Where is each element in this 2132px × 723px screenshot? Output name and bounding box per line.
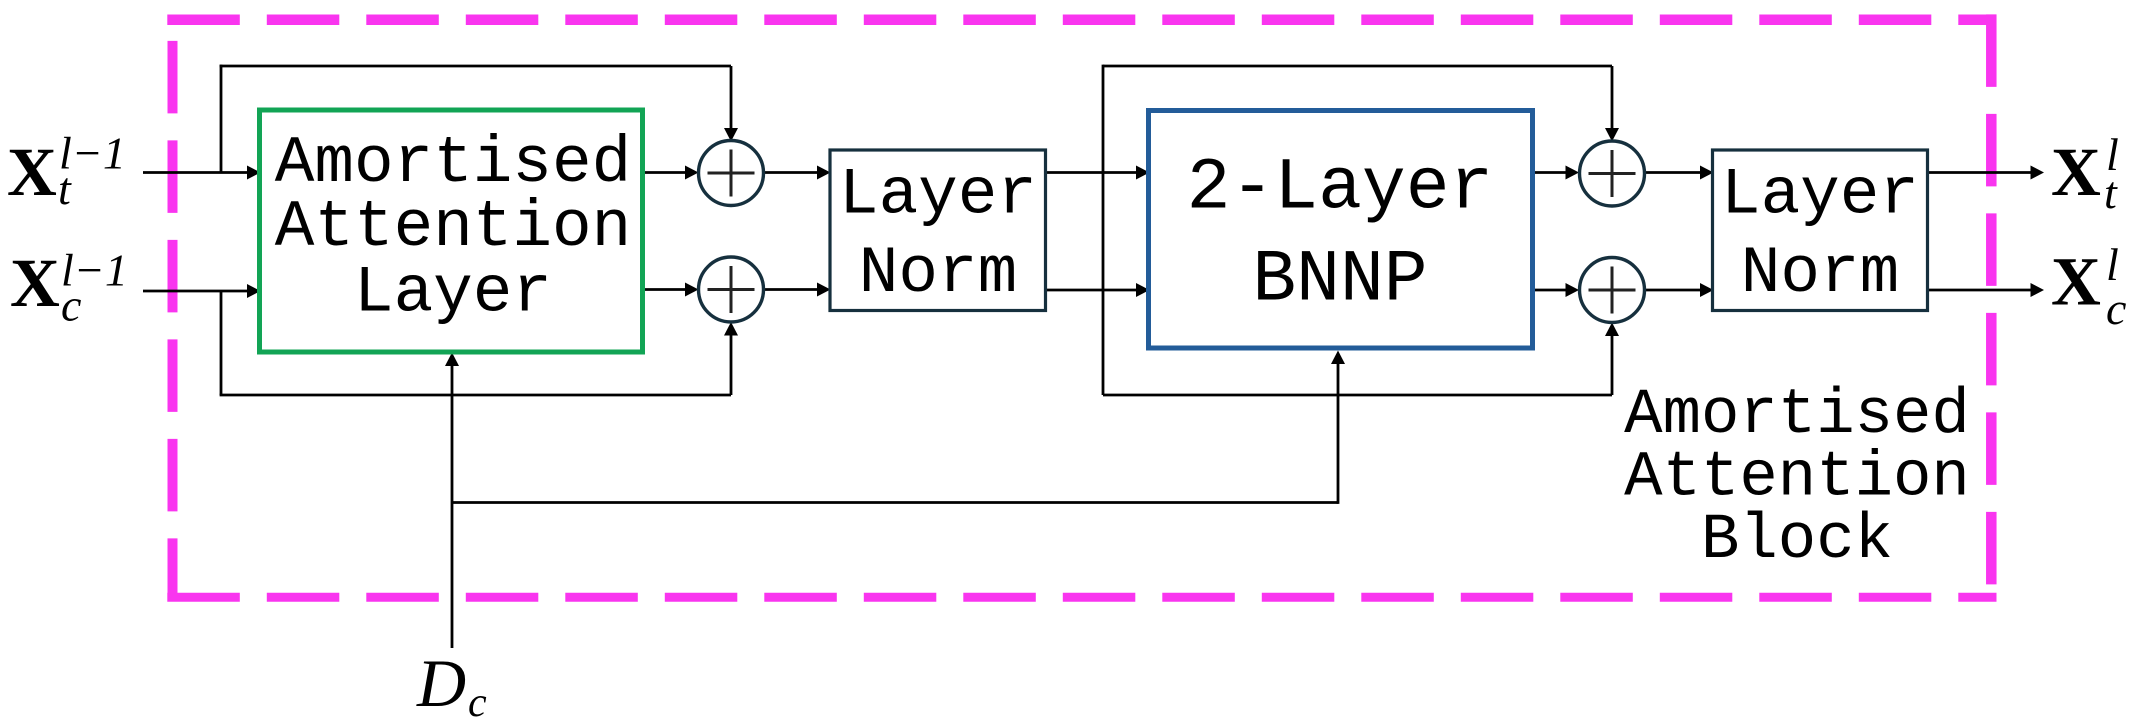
arrowhead into sum2 from bottom	[724, 322, 738, 336]
svg-text:Amortised: Amortised	[1624, 380, 1970, 452]
arrowhead Dc into bnnp bottom	[1331, 351, 1345, 365]
arrowhead into sum1 from top	[724, 128, 738, 142]
wire layernorm1 to bnnp row2	[1046, 289, 1138, 292]
wire input Xt row1	[143, 171, 249, 174]
dashed block border top	[167, 14, 1996, 25]
svg-text:t: t	[2104, 167, 2118, 218]
wire skip3 top horizontal	[1103, 65, 1612, 68]
wire sum1 to layernorm1	[764, 171, 819, 174]
arrowhead into sum4 from bottom	[1605, 323, 1619, 337]
dashed block border left	[168, 14, 178, 601]
svg-text:t: t	[58, 163, 72, 214]
sum node 1	[699, 141, 764, 206]
svg-text:2-Layer: 2-Layer	[1187, 147, 1494, 230]
svg-text:c: c	[61, 280, 81, 331]
wire Dc branch vertical into bnnp	[1337, 362, 1340, 504]
wire input Xc row2	[143, 290, 249, 293]
node label Xt l-1 input	[7, 128, 126, 215]
svg-text:Norm: Norm	[859, 236, 1017, 311]
svg-text:Norm: Norm	[1741, 236, 1899, 311]
wire sum3 to layernorm2	[1645, 171, 1701, 174]
wire layernorm1 to bnnp row1	[1046, 171, 1138, 174]
arrowhead into bnnp row2	[1136, 283, 1150, 297]
arrowhead into layernorm1 row2	[817, 283, 831, 297]
node label Xc l-1 input	[10, 245, 128, 331]
wire skip3 vertical	[1102, 65, 1105, 395]
sum node 3	[1580, 141, 1645, 206]
wire sum4 to layernorm2	[1645, 289, 1701, 292]
node label Xt l output	[2051, 129, 2119, 218]
wire output Xt row1	[1928, 171, 2032, 174]
arrowhead into sum1 from attention	[685, 166, 699, 180]
wire attention out row2	[643, 288, 687, 291]
wire bnnp out row1	[1533, 171, 1567, 174]
svg-text:Block: Block	[1701, 505, 1893, 577]
svg-text:Attention: Attention	[275, 190, 631, 265]
sum node 4	[1580, 258, 1645, 323]
node label Xc l output	[2051, 239, 2126, 334]
svg-text:D: D	[416, 645, 466, 721]
sum node 2	[699, 257, 764, 322]
wire skip2 up into sum2	[730, 335, 733, 395]
arrowhead output Xt	[2031, 166, 2045, 180]
svg-text:Attention: Attention	[1624, 443, 1970, 515]
box 2-layer bnnp	[1149, 111, 1533, 349]
wire skip4 up into sum4	[1611, 336, 1614, 395]
node label Dc	[416, 645, 487, 723]
svg-text:Layer: Layer	[354, 256, 552, 331]
arrowhead into sum4 from bnnp	[1566, 283, 1580, 297]
box layernorm1	[830, 150, 1046, 311]
arrowhead into sum3 from top	[1605, 128, 1619, 142]
wire skip3 down into sum3	[1611, 66, 1614, 129]
svg-text:X: X	[10, 245, 60, 321]
wire output Xc row2	[1928, 289, 2032, 292]
wire skip2 bottom vertical	[220, 291, 223, 395]
dashed block border bottom	[167, 593, 1996, 602]
wire sum2 to layernorm1	[764, 288, 819, 291]
wire Dc vertical	[451, 364, 454, 648]
wire skip2 bottom horizontal	[220, 394, 731, 397]
arrowhead into layernorm2 row2	[1700, 283, 1714, 297]
svg-text:Layer: Layer	[839, 158, 1037, 233]
box layernorm2	[1713, 150, 1928, 311]
arrowhead into attention row1	[247, 166, 261, 180]
wire bnnp out row2	[1533, 289, 1567, 292]
wire Dc branch horizontal	[452, 501, 1338, 504]
arrowhead into bnnp row1	[1136, 166, 1150, 180]
svg-text:X: X	[2051, 244, 2101, 320]
svg-text:BNNP: BNNP	[1252, 239, 1427, 322]
svg-text:X: X	[7, 134, 57, 210]
wire skip4 bottom horizontal	[1103, 394, 1612, 397]
arrowhead into sum3 from bnnp	[1566, 166, 1580, 180]
wire attention out row1	[643, 171, 687, 174]
arrowhead into sum2 from attention	[685, 283, 699, 297]
wire skip1 top vertical	[220, 65, 223, 173]
wire skip1 down into sum1	[730, 66, 733, 129]
wire skip1 top horizontal	[220, 65, 731, 68]
svg-text:c: c	[468, 680, 487, 723]
arrowhead output Xc	[2031, 283, 2045, 297]
box amortised attention layer	[260, 110, 643, 352]
dashed block border right	[1986, 14, 1997, 601]
arrowhead into layernorm2 row1	[1700, 166, 1714, 180]
arrowhead into attention row2	[247, 284, 261, 298]
svg-text:c: c	[2106, 283, 2126, 334]
svg-text:X: X	[2051, 134, 2101, 210]
arrowhead Dc into attention bottom	[445, 353, 459, 367]
arrowhead into layernorm1 row1	[817, 166, 831, 180]
svg-text:Layer: Layer	[1721, 158, 1919, 233]
